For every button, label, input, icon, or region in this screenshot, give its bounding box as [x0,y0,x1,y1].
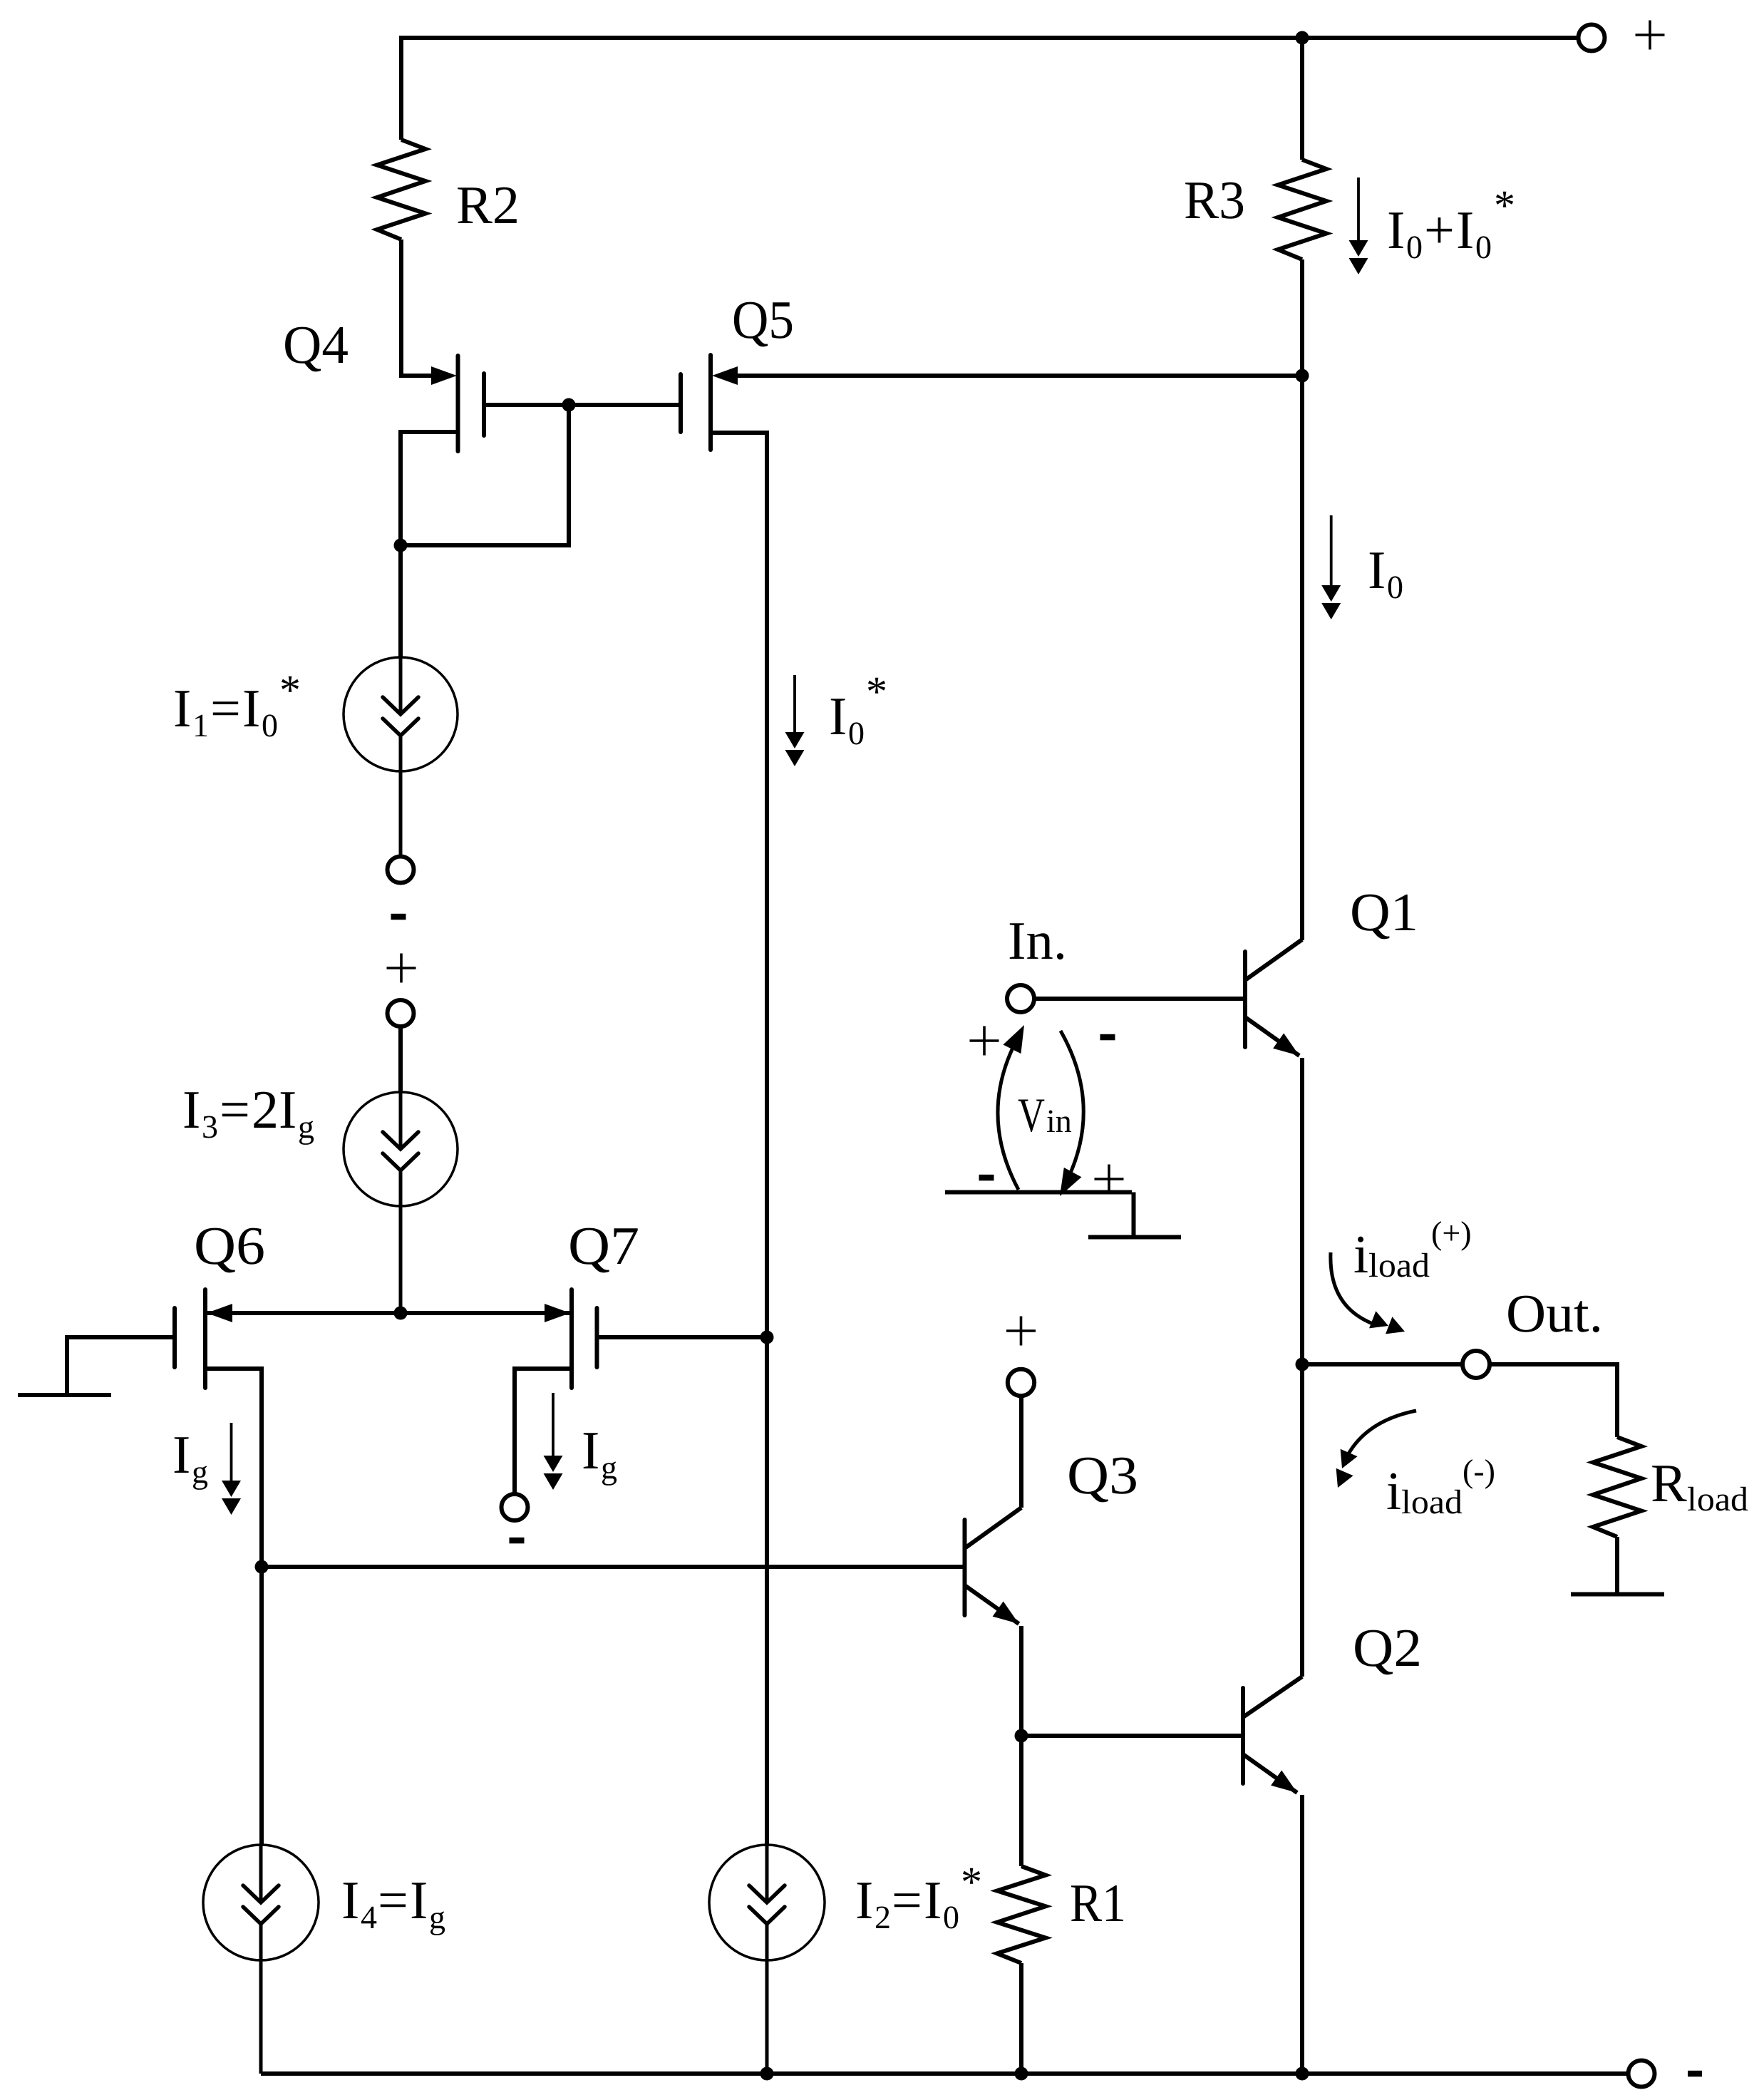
wire Q6 gate to ground [67,1337,175,1393]
wire Q5 source [711,433,767,1845]
svg-text:I: I [582,1421,599,1481]
transistor Q6 channel bar [203,1290,207,1388]
label - negative supply [1688,2071,1702,2077]
svg-text:g: g [298,1108,314,1145]
svg-text:+: + [1424,200,1455,260]
wire Q1 emitter to Out node [1300,1058,1304,1364]
svg-text:Q3: Q3 [1067,1446,1138,1505]
wire Out node to Q2 collector [1300,1364,1304,1677]
terminal circle Q7 source [502,1494,528,1520]
transistor Q5 gate bar [679,374,683,432]
wire error plus to I3 [398,1026,403,1092]
svg-text:R2: R2 [456,175,520,235]
terminal circle error minus [388,857,414,883]
svg-text:0: 0 [262,707,278,743]
label + Q3 collector [1006,1329,1036,1332]
wire In to Q1 base [1034,997,1245,1001]
transistor Q2 emitter [1243,1754,1297,1793]
transistor Q6 drain arrow [207,1304,232,1322]
label - Q7 source [510,1538,525,1544]
wire R3 node to Q1 collector [1300,376,1304,940]
wire Rload bottom lead [1615,1537,1619,1595]
svg-text:*: * [961,1858,982,1905]
label - error top [391,914,406,920]
arrow vin right arc [1061,1031,1083,1189]
svg-text:0: 0 [1406,229,1423,265]
resistor R2 [377,140,425,240]
terminal circle error plus [388,1000,414,1026]
svg-text:I: I [855,1870,873,1930]
transistor Q6 gate bar [172,1308,177,1367]
svg-text:I: I [242,679,260,738]
wire Q3 emitter down [1019,1626,1023,1736]
transistor Q5 drain arrow [712,366,738,385]
wire R1 to rail [1019,1963,1023,2074]
svg-text:load: load [1368,1247,1430,1285]
transistor Q7 drain arrow [545,1304,570,1322]
terminal circle positive supply [1579,25,1605,51]
transistor Q1 base bar [1243,952,1247,1047]
current source I3 wire top [399,1092,403,1149]
svg-text:I: I [341,1870,359,1930]
wire Out terminal to Rload [1490,1364,1617,1437]
svg-text:in: in [1046,1103,1072,1139]
wire Q7 gate to Q5 source column [597,1335,768,1339]
current source I3 wire bottom [399,1170,403,1313]
svg-text:*: * [1494,182,1515,229]
current source I4 wire bottom [259,1924,263,2074]
junction dot Q7 gate [760,1331,774,1344]
current source I3 circle [344,1092,458,1206]
current arrow Ig right [552,1393,555,1456]
transistor Q2 emitter arrow [1271,1771,1297,1793]
svg-text:I: I [279,1080,296,1140]
label - vin top-right [1100,1034,1115,1041]
ground Rload [1571,1592,1664,1597]
junction dot R3/Q5 drain [1296,369,1309,383]
svg-text:=: = [892,1870,922,1930]
arrow vin left arc head [1003,1025,1024,1054]
current source I1 wire bottom [399,736,403,858]
wire R2 top lead from rail [399,36,403,140]
svg-text:0: 0 [848,715,865,751]
svg-text:(+): (+) [1431,1215,1472,1251]
wire Q3 base from Q6 node [262,1565,965,1569]
transistor Q5 channel bar [708,355,713,450]
svg-text:2: 2 [252,1080,279,1140]
current source I4 wire top [259,1845,263,1903]
svg-text:I: I [173,679,191,738]
current arrow Ig left [230,1423,233,1481]
current source I1 chevrons [383,697,418,714]
junction dot Q4 source node [394,539,408,552]
svg-text:load: load [1401,1483,1463,1521]
terminal circle Q3 collector [1008,1369,1034,1396]
svg-text:Q6: Q6 [194,1216,265,1276]
arrow iload(+) [1331,1252,1373,1324]
svg-text:i: i [1353,1225,1368,1285]
transistor Q1 emitter arrow [1273,1034,1299,1056]
transistor Q3 base bar [963,1520,967,1615]
svg-text:Q2: Q2 [1353,1618,1422,1678]
svg-text:R3: R3 [1184,170,1245,230]
svg-text:0: 0 [1475,229,1492,265]
svg-text:V: V [1018,1088,1045,1142]
transistor Q2 collector [1243,1677,1302,1717]
svg-text:Out.: Out. [1506,1284,1603,1344]
wire R3 top lead [1300,38,1304,160]
svg-text:R: R [1651,1453,1687,1513]
svg-text:1: 1 [192,707,209,743]
wire gate tie-down to Q4 source [401,405,569,545]
svg-text:(-): (-) [1463,1453,1495,1489]
junction dot R1 bottom rail [1015,2067,1028,2081]
current source I2 wire top [765,1845,769,1903]
svg-text:I: I [182,1080,200,1140]
wire Q3 node to R1 [1019,1736,1023,1866]
wire top supply rail [401,36,1579,40]
junction dot I2 bottom rail [760,2067,774,2081]
transistor Q3 emitter arrow [993,1602,1019,1625]
svg-text:g: g [192,1453,208,1490]
svg-text:2: 2 [875,1899,891,1935]
wire Q2 emitter to rail [1300,1795,1304,2074]
transistor Q4 gate bar [482,374,486,436]
current source I3 chevrons [383,1132,418,1149]
terminal circle Out [1463,1351,1490,1378]
wire Q4 gate to Q5 gate [484,403,681,407]
current source I4 circle [203,1845,319,1960]
junction dot I3 to drain line [394,1307,408,1320]
svg-text:I: I [410,1870,428,1930]
current arrow I0+I0* [1357,177,1360,240]
svg-text:4: 4 [361,1899,377,1935]
ground Q6 gate [18,1393,111,1397]
svg-text:0: 0 [1387,569,1403,605]
svg-text:I: I [924,1870,942,1930]
wire bottom rail [261,2071,1629,2076]
svg-text:g: g [601,1449,617,1486]
wire Q5 drain from R3 node [736,374,1302,378]
svg-text:I: I [1368,540,1386,600]
wire Q6/Q7 drain line [205,1311,572,1315]
transistor Q7 channel bar [569,1290,574,1388]
svg-text:load: load [1687,1481,1748,1518]
terminal circle negative supply [1629,2061,1655,2087]
wire R3 bottom lead [1300,259,1304,376]
junction dot Out node [1296,1358,1309,1371]
current arrow I0* [793,675,796,732]
svg-text:Q4: Q4 [283,315,349,375]
wire Q3 node to Q2 base [1021,1734,1243,1738]
svg-text:=: = [210,679,241,738]
wire Q3 collector up [1019,1396,1023,1508]
svg-text:Q7: Q7 [568,1216,639,1276]
svg-text:*: * [866,668,887,715]
resistor R3 [1278,160,1326,259]
arrow vin left arc [998,1031,1021,1190]
svg-text:Q5: Q5 [732,290,794,350]
svg-text:I: I [172,1425,190,1485]
arrow iload(-) [1347,1411,1416,1456]
svg-text:*: * [279,666,301,714]
wire Q7 source [515,1369,572,1493]
current source I4 chevrons [243,1885,279,1903]
terminal circle In [1007,985,1034,1012]
svg-text:i: i [1386,1461,1401,1521]
label + error bottom [387,967,416,969]
current arrow I0 [1330,515,1333,585]
junction dot Q6 source node [255,1560,269,1574]
wire Q4 source node to I1 [398,545,403,657]
svg-text:In.: In. [1008,911,1067,971]
transistor Q3 collector [965,1508,1022,1548]
svg-text:Q1: Q1 [1350,882,1418,942]
svg-text:=: = [378,1870,408,1930]
junction dot top rail to R3 [1296,31,1309,45]
junction dot Q3 emitter node [1015,1729,1028,1743]
arrow vin right arc head [1060,1168,1081,1196]
resistor R1 [997,1866,1046,1963]
label - vin bottom-left [979,1175,994,1181]
transistor Q1 collector [1245,940,1302,980]
label + positive supply [1636,34,1665,36]
transistor Q4 channel bar [456,356,460,451]
label + vin top-left [970,1039,999,1042]
wire Q6 source node to I4 [259,1567,264,1845]
svg-text:3: 3 [202,1108,218,1145]
label + vin bottom-right [1095,1178,1124,1180]
svg-text:g: g [429,1899,445,1935]
wire Q4 source [401,432,458,545]
transistor Q3 emitter [965,1585,1019,1624]
svg-text:I: I [829,686,847,746]
junction dot Q2 bottom rail [1296,2067,1309,2081]
resistor Rload [1593,1437,1641,1537]
wire R2 bottom lead to Q4 drain [401,240,431,376]
wire Q6 source [205,1369,262,1567]
current source I1 wire top [399,657,403,714]
svg-text:I: I [1387,200,1405,260]
svg-text:R1: R1 [1070,1873,1126,1933]
svg-text:0: 0 [943,1899,959,1935]
transistor Q7 gate bar [595,1308,599,1367]
current source I1 circle [344,657,458,771]
current source I2 chevrons [749,1885,785,1903]
ground input [945,1193,1181,1237]
junction dot gate tie [562,398,576,412]
transistor Q1 emitter [1245,1017,1299,1056]
wire Out node to terminal [1302,1362,1463,1366]
transistor Q2 base bar [1241,1688,1245,1783]
current source I2 circle [709,1845,825,1960]
svg-text:I: I [1456,200,1474,260]
current source I2 wire bottom [765,1924,769,2074]
transistor Q4 drain arrow [431,366,457,385]
svg-text:=: = [220,1080,250,1140]
